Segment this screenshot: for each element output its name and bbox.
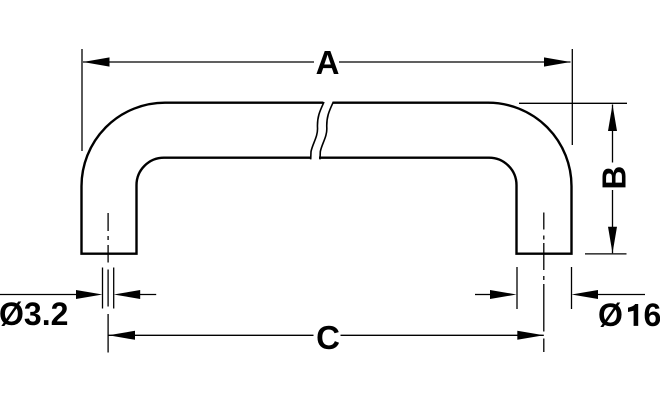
dim O16 arrowhead left xyxy=(490,290,517,299)
dim B line xyxy=(612,105,614,254)
dim O3.2 leader right xyxy=(140,294,157,296)
dim A line xyxy=(83,61,571,63)
handle outline left half (outer edge, left leg, inner edge) xyxy=(82,103,324,254)
dim B arrowhead down xyxy=(608,227,617,254)
svg-text:B: B xyxy=(596,166,633,190)
svg-text:C: C xyxy=(316,319,340,356)
dim A extension line right xyxy=(571,49,573,145)
dim A arrowhead left xyxy=(83,57,110,66)
handle outline right half (outer edge, right leg, inner edge) xyxy=(319,103,572,254)
dim O3.2 arrowhead right xyxy=(114,290,141,299)
hole edge line right (O3.2) xyxy=(113,268,115,309)
svg-text:6: 6 xyxy=(644,297,660,333)
dim C arrowhead left xyxy=(109,331,136,340)
dim O16 leader right xyxy=(598,294,646,296)
dim O16 extension line right xyxy=(571,267,573,309)
dim B arrowhead up xyxy=(608,105,617,132)
break line left (wavy) xyxy=(311,102,324,159)
dim O16 arrowhead right xyxy=(572,290,599,299)
dim C line xyxy=(109,334,544,336)
dim O16 leader left xyxy=(475,294,491,296)
dim A extension line left xyxy=(81,49,83,151)
dim A arrowhead right xyxy=(544,57,571,66)
svg-text:Ø: Ø xyxy=(598,297,623,333)
dim O16 extension line left xyxy=(516,267,518,309)
dim B extension line top xyxy=(519,102,627,104)
dim C arrowhead right xyxy=(517,331,544,340)
hole edge line left (O3.2) xyxy=(102,268,104,309)
dim B extension tick bottom xyxy=(585,253,627,255)
svg-text:A: A xyxy=(316,44,340,81)
dim O3.2 leader left xyxy=(0,294,77,296)
svg-text:Ø3.2: Ø3.2 xyxy=(0,296,68,332)
centerline right leg (dash-dot) xyxy=(543,213,545,353)
centerline left leg (dash-dot) xyxy=(107,213,109,353)
break line right (wavy) xyxy=(320,102,333,159)
dim O3.2 arrowhead left xyxy=(76,290,103,299)
